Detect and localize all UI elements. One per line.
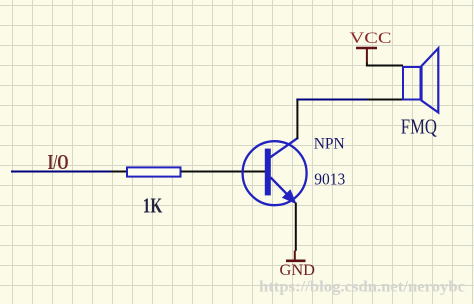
transistor Q1 circle xyxy=(243,141,307,205)
svg-text:9013: 9013 xyxy=(314,170,345,189)
resistor R1 left pin xyxy=(111,171,127,173)
transistor Q1 collector stroke xyxy=(270,138,299,158)
power port VCC stem xyxy=(366,48,368,63)
svg-text:GND: GND xyxy=(280,262,316,279)
speaker LS1 body rect xyxy=(403,67,421,100)
power port GND bar xyxy=(286,259,306,262)
wire VCC elbow to speaker (black) xyxy=(367,63,403,66)
power port VCC bar xyxy=(356,47,377,50)
svg-text:VCC: VCC xyxy=(350,30,392,47)
transistor Q1 emitter stroke xyxy=(271,177,293,199)
svg-text:NPN: NPN xyxy=(314,135,345,152)
speaker LS1 cone xyxy=(422,48,439,112)
power port GND stem xyxy=(294,251,296,261)
svg-text:FMQ: FMQ xyxy=(401,115,437,139)
transistor Q1 base bar xyxy=(265,149,271,196)
transistor Q1 emitter arrowhead xyxy=(282,189,297,204)
wire collector to speaker node (navy) xyxy=(296,99,368,101)
svg-text:1K: 1K xyxy=(143,193,163,217)
svg-text:https://blog.csdn.net/neroybc: https://blog.csdn.net/neroybc xyxy=(259,278,465,295)
speaker LS1 bottom pin xyxy=(367,99,403,101)
wire I/O net (navy) xyxy=(11,171,111,173)
resistor R1 right pin / transistor base pin xyxy=(181,171,266,173)
transistor collector pin (vertical) xyxy=(296,99,298,140)
svg-text:I/O: I/O xyxy=(48,150,69,174)
transistor emitter pin (vertical to GND) xyxy=(295,203,297,251)
resistor R1 body xyxy=(127,167,181,176)
